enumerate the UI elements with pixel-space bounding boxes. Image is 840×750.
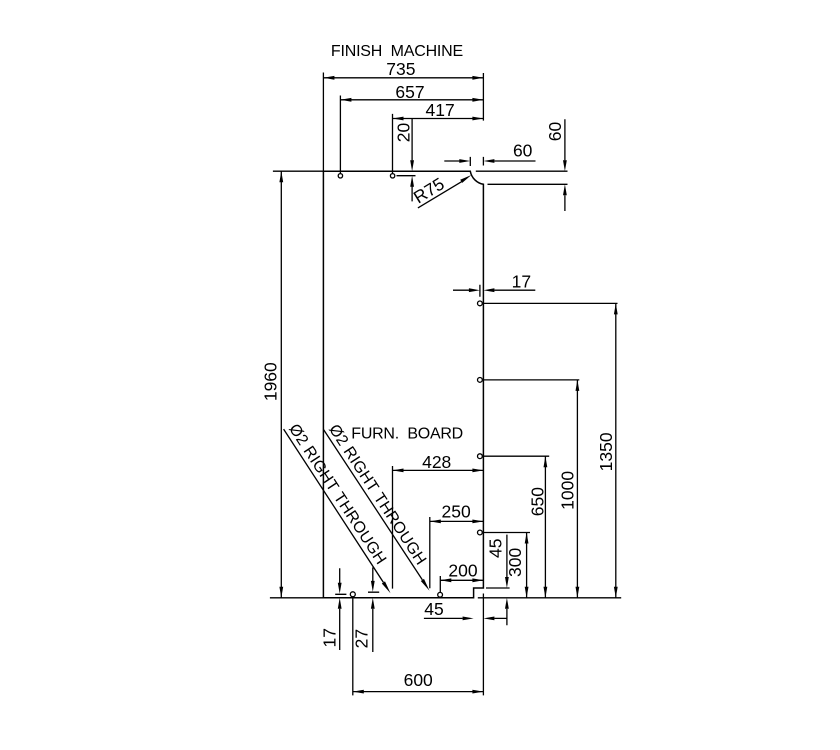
arrowheads dim 1000 [576, 380, 580, 391]
dim 428 [393, 466, 484, 589]
leader phi2 no2 [324, 430, 423, 580]
dim 650 [483, 456, 549, 598]
arrowheads dim 300 [525, 533, 529, 544]
arrowhead R75 [460, 175, 471, 183]
svg-text:1960: 1960 [261, 362, 281, 401]
arrowheads dim 735 [323, 76, 334, 80]
hole right edge (650) [478, 454, 483, 459]
dim 20 vertical [397, 119, 416, 202]
svg-text:300: 300 [505, 548, 525, 577]
arrowheads dim 1960 [279, 171, 283, 182]
dim 1000 [483, 380, 579, 598]
baseline extension right of bottom edge [478, 597, 621, 599]
hole top-left (657) [338, 174, 342, 178]
svg-text:60: 60 [513, 141, 533, 161]
dim 45 vertical bottom right [506, 535, 508, 626]
svg-text:657: 657 [395, 82, 424, 102]
arrowheads dim 45 horizontal [463, 617, 474, 621]
hole right edge (1350) [478, 301, 483, 306]
arrowheads dim 45 vertical [505, 577, 509, 588]
arrowheads dim 20 [410, 160, 414, 171]
arrowheads dim 1350 [614, 303, 618, 314]
dim 60 horizontal top [444, 157, 535, 166]
dim 17 bottom left [335, 568, 346, 650]
arrowheads dim 17 right [469, 288, 480, 292]
arrowheads dim 250 [430, 520, 441, 524]
svg-text:417: 417 [425, 100, 454, 120]
svg-text:650: 650 [528, 487, 548, 516]
dim 600 [353, 594, 484, 696]
leader phi2 no1 [284, 429, 384, 582]
svg-text:735: 735 [386, 59, 415, 79]
svg-text:45: 45 [424, 599, 443, 619]
svg-text:1000: 1000 [558, 471, 578, 510]
arrowheads dim 17 bottom [338, 583, 342, 594]
svg-text:FURN. BOARD: FURN. BOARD [351, 426, 463, 443]
svg-text:45: 45 [486, 539, 506, 558]
dim 735 line [323, 73, 483, 172]
dim 300 [483, 533, 530, 598]
hole bottom-left (600/17) [350, 592, 355, 597]
arrowheads dim 650 [544, 456, 548, 467]
hole right edge (300) [478, 530, 483, 535]
svg-text:17: 17 [320, 628, 340, 647]
svg-text:17: 17 [512, 272, 531, 292]
arrowheads dim 657 [340, 98, 351, 102]
notch top extension [486, 587, 510, 589]
arrowhead leader phi2 no1 [382, 581, 391, 593]
dim 1960 [270, 171, 324, 598]
leader R75 [418, 181, 462, 208]
arrowheads dim 60 horizontal [459, 159, 470, 163]
svg-text:200: 200 [448, 561, 477, 581]
svg-text:428: 428 [422, 452, 451, 472]
dim 250 [430, 517, 484, 588]
svg-text:60: 60 [545, 122, 565, 142]
svg-text:250: 250 [441, 502, 470, 522]
hole bottom (200) [438, 592, 443, 597]
dim 17 right edge [453, 285, 535, 297]
dim 657 line [340, 96, 483, 174]
arrowheads dim 417 [393, 117, 404, 121]
dim 200 [440, 576, 483, 592]
dim 27 bottom left [368, 567, 379, 652]
svg-text:FINISH MACHINE: FINISH MACHINE [331, 43, 463, 60]
arrowhead leader phi2 no2 [421, 579, 430, 591]
svg-text:1350: 1350 [596, 432, 616, 471]
hole top-mid (417) [390, 174, 394, 178]
arrowheads dim 200 [440, 578, 451, 582]
arrowheads dim 27 bottom [371, 581, 375, 592]
arrowheads dim 60 vertical [563, 160, 567, 171]
hole right edge (1000) [478, 378, 483, 383]
arrowheads dim 428 [393, 469, 404, 473]
svg-text:27: 27 [352, 629, 372, 648]
arrowheads dim 600 [353, 690, 364, 694]
dim 1350 [483, 303, 617, 597]
svg-text:600: 600 [404, 670, 433, 690]
board outline [323, 171, 483, 598]
dim 45 horizontal bottom [424, 617, 507, 619]
svg-text:20: 20 [394, 123, 414, 143]
dim 60 vertical right [476, 119, 568, 211]
dim 417 line [393, 114, 484, 174]
